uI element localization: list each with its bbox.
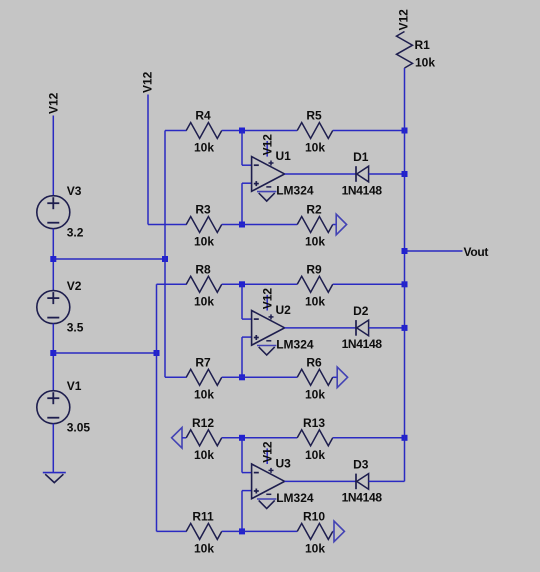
node divider tap B (V2/V1) <box>50 350 56 356</box>
ground at U2 V- pin <box>257 345 276 347</box>
wire R10 to port <box>333 530 334 532</box>
svg-text:R10: R10 <box>303 510 325 524</box>
svg-text:V12: V12 <box>260 441 274 463</box>
diode D1 1N4148 (cathode bar left, anode right) <box>355 166 357 182</box>
wire R8 to R9 <box>222 283 298 285</box>
wire R9 to output rail <box>333 283 405 285</box>
svg-text:3.2: 3.2 <box>67 226 84 240</box>
U2 inverting input "-" marker <box>254 318 259 320</box>
node D1/rail junction <box>402 171 408 177</box>
port at R2 (output port triangle) <box>336 214 346 235</box>
svg-text:1N4148: 1N4148 <box>342 183 383 197</box>
svg-text:1N4148: 1N4148 <box>342 491 383 505</box>
U1 inverting input "-" marker <box>254 164 259 166</box>
node tap B on vertical rail <box>154 350 160 356</box>
wire R4 to R5 <box>222 130 298 132</box>
port at R12 (input port triangle) <box>172 428 182 449</box>
wire V12 rail #2 down <box>147 95 149 225</box>
node tap A on vertical rail <box>162 256 168 262</box>
svg-text:R4: R4 <box>195 109 211 123</box>
resistor R1 10k (vertical) <box>397 32 413 69</box>
resistor R4 10k <box>186 123 222 139</box>
svg-text:10k: 10k <box>305 141 325 155</box>
wire rail to R7 <box>165 376 187 378</box>
wire D2 anode to rail <box>369 327 405 329</box>
svg-text:R6: R6 <box>306 356 322 370</box>
svg-text:1N4148: 1N4148 <box>342 337 383 351</box>
resistor R7 10k <box>186 369 222 385</box>
wire U3 output to D3 cathode <box>285 480 356 482</box>
diode D3 1N4148 (cathode bar left, anode right) <box>355 474 357 490</box>
wire U1 output to D1 cathode <box>285 173 356 175</box>
svg-text:3.5: 3.5 <box>67 321 84 335</box>
op-amp U3 LM324 triangle <box>252 464 285 499</box>
resistor R10 10k <box>297 523 333 539</box>
wire Vout tap <box>405 250 463 252</box>
svg-text:Vout: Vout <box>464 245 489 259</box>
wire port to R12 <box>182 437 186 439</box>
ground (bottom of source stack) <box>43 472 66 474</box>
svg-text:10k: 10k <box>305 235 325 249</box>
diode D2 1N4148 (cathode bar left, anode right) <box>355 320 357 336</box>
svg-text:10k: 10k <box>305 448 325 462</box>
node R3/R2/U1+ junction <box>239 222 245 228</box>
svg-text:V12: V12 <box>47 92 61 114</box>
svg-text:10k: 10k <box>305 542 325 556</box>
svg-text:R13: R13 <box>303 416 325 430</box>
svg-text:10k: 10k <box>194 235 214 249</box>
ground at U1 V- pin <box>257 191 276 193</box>
node Vout tap <box>402 248 408 254</box>
U2 non-inverting input "+" marker <box>254 337 259 339</box>
svg-text:V12: V12 <box>141 71 155 93</box>
svg-text:10k: 10k <box>305 295 325 309</box>
U1 V+ supply pin <box>266 141 268 157</box>
svg-text:R3: R3 <box>195 203 211 217</box>
voltage source V3 3.2V <box>37 196 70 229</box>
port at R10 (output port triangle) <box>334 521 344 542</box>
svg-text:V1: V1 <box>67 379 82 393</box>
svg-text:10k: 10k <box>415 56 435 70</box>
wire R5 to output rail <box>333 130 405 132</box>
node R9/rail junction <box>402 281 408 287</box>
resistor R12 10k <box>186 430 222 446</box>
node D2/rail junction <box>402 325 408 331</box>
svg-text:LM324: LM324 <box>276 337 314 351</box>
wire rail to R8 <box>157 283 187 285</box>
resistor R9 10k <box>297 276 333 292</box>
wire V3 to V2 <box>52 229 54 291</box>
wire tap B to rail <box>53 352 156 354</box>
wire stub U3 non-inverting input <box>242 490 252 492</box>
svg-text:3.05: 3.05 <box>67 421 91 435</box>
wire junction down to U3 inverting input <box>241 438 243 473</box>
wire stub U2 inverting input <box>242 318 252 320</box>
U1 non-inverting input "+" marker <box>254 183 259 185</box>
svg-text:V3: V3 <box>67 184 82 198</box>
wire R12 to R13 <box>222 437 298 439</box>
wire R6 to port <box>333 376 337 378</box>
wire V12 rail down to V3 <box>52 116 54 197</box>
op-amp U2 LM324 triangle <box>252 311 285 346</box>
svg-text:V12: V12 <box>260 288 274 310</box>
wire V2 to V1 <box>52 324 54 391</box>
svg-text:V2: V2 <box>67 279 82 293</box>
node R12/R13/U3- junction <box>239 435 245 441</box>
node R5/rail junction <box>402 128 408 134</box>
svg-text:R2: R2 <box>306 203 322 217</box>
resistor R8 10k <box>186 276 222 292</box>
svg-text:LM324: LM324 <box>276 183 314 197</box>
resistor R6 10k <box>297 369 333 385</box>
wire stub U1 inverting input <box>242 164 252 166</box>
U1 V- supply pin marker <box>266 186 271 188</box>
wire D1 anode to rail <box>369 173 405 175</box>
wire vertical rail tap A (R4 to R7) <box>164 131 166 378</box>
svg-text:R7: R7 <box>195 356 211 370</box>
svg-text:V12: V12 <box>397 9 411 31</box>
svg-text:LM324: LM324 <box>276 491 314 505</box>
svg-text:R11: R11 <box>192 510 214 524</box>
op-amp U1 LM324 triangle <box>252 157 285 192</box>
U3 V- supply pin marker <box>266 493 271 495</box>
svg-text:10k: 10k <box>194 141 214 155</box>
svg-text:R5: R5 <box>306 109 322 123</box>
U2 V- supply pin marker <box>266 340 271 342</box>
node R7/R6/U2+ junction <box>239 374 245 380</box>
wire U1 non-inverting input down to R3 row <box>241 183 243 224</box>
wire U2 non-inverting input down to R7 row <box>241 337 243 377</box>
svg-text:D1: D1 <box>353 150 369 164</box>
wire junction down to U1 inverting input <box>241 131 243 166</box>
svg-text:U1: U1 <box>276 149 292 163</box>
svg-text:10k: 10k <box>194 295 214 309</box>
svg-text:R8: R8 <box>195 263 211 277</box>
resistor R11 10k <box>186 523 222 539</box>
U3 V+ supply pin <box>266 448 268 464</box>
svg-text:V12: V12 <box>260 134 274 156</box>
wire vertical rail tap B (R8 to R11) <box>156 284 158 531</box>
node divider tap A (V3/V2) <box>50 256 56 262</box>
resistor R13 10k <box>297 430 333 446</box>
voltage source V1 3.05V <box>37 391 70 424</box>
svg-text:R1: R1 <box>415 38 431 52</box>
U3 non-inverting input "+" marker <box>254 490 259 492</box>
svg-text:U2: U2 <box>276 303 292 317</box>
svg-text:10k: 10k <box>194 448 214 462</box>
ground at U3 V- pin <box>257 498 276 500</box>
resistor R2 10k <box>297 217 333 233</box>
svg-text:U3: U3 <box>276 456 292 470</box>
wire output rail (R1 down to D3 row) <box>404 68 406 481</box>
resistor R3 10k <box>186 217 222 233</box>
resistor R5 10k <box>297 123 333 139</box>
wire junction down to U2 inverting input <box>241 284 243 319</box>
wire R2 to port <box>333 224 336 226</box>
node R4/R5/U1- junction <box>239 128 245 134</box>
wire stub U2 non-inverting input <box>242 336 252 338</box>
node R13/rail junction <box>402 435 408 441</box>
U3 inverting input "-" marker <box>254 472 259 474</box>
svg-text:10k: 10k <box>194 388 214 402</box>
wire U3 non-inverting input down to R11 row <box>241 491 243 532</box>
wire U2 output to D2 cathode <box>285 327 356 329</box>
wire D3 anode to rail corner <box>369 480 405 482</box>
port at R6 (output port triangle) <box>337 367 347 388</box>
wire R3 to R2 <box>222 224 298 226</box>
wire R13 to output rail <box>333 437 405 439</box>
wire stub U3 inverting input <box>242 472 252 474</box>
wire V12 rail #2 to R3 <box>148 224 187 226</box>
wire V1 to ground <box>52 424 54 473</box>
wire R7 to R6 <box>222 376 298 378</box>
svg-text:R12: R12 <box>192 416 214 430</box>
wire rail to R11 <box>157 530 187 532</box>
svg-text:R9: R9 <box>306 263 322 277</box>
wire rail to R4 <box>165 130 187 132</box>
svg-text:10k: 10k <box>194 542 214 556</box>
wire stub U1 non-inverting input <box>242 182 252 184</box>
wire R11 to R10 <box>222 530 298 532</box>
svg-text:10k: 10k <box>305 388 325 402</box>
U2 V+ supply pin <box>266 295 268 311</box>
svg-text:D2: D2 <box>353 304 369 318</box>
node R8/R9/U2- junction <box>239 281 245 287</box>
voltage source V2 3.5V <box>37 291 70 324</box>
wire tap A to rail <box>53 258 165 260</box>
node R11/R10/U3+ junction <box>239 528 245 534</box>
svg-text:D3: D3 <box>353 457 369 471</box>
